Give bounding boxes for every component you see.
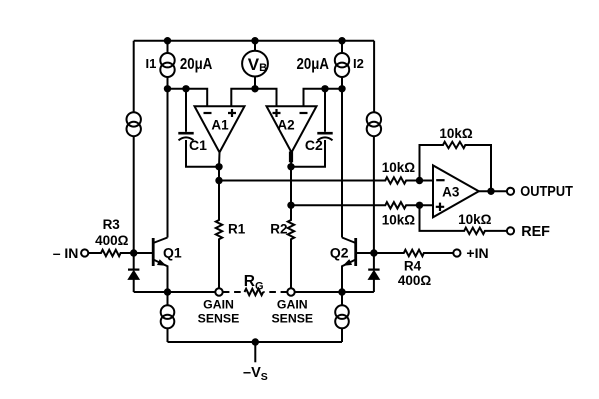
diode D2 (right clamp) (373, 253, 375, 270)
svg-text:REF: REF (521, 224, 550, 240)
svg-text:OUTPUT: OUTPUT (520, 184, 573, 200)
sign A1 plus (228, 109, 236, 117)
wire junction row right (A2 minus to I2) (304, 89, 343, 106)
wire gain-sense row left (134, 291, 216, 293)
svg-text:C1: C1 (189, 137, 207, 153)
node C1 top junction (182, 85, 189, 92)
svg-text:A1: A1 (211, 118, 229, 133)
resistor R1 (216, 181, 222, 289)
node VB bottom junction (251, 85, 258, 92)
wire gain-sense row right (295, 291, 374, 293)
svg-text:R1: R1 (228, 222, 246, 237)
wire I1 column top (167, 41, 169, 54)
wire A2 plus input (255, 89, 277, 106)
op-amp A1 (195, 106, 245, 152)
current source (right mirror) (367, 112, 381, 126)
wire junction row left (I1 to A1 minus) (168, 89, 208, 106)
wire I2 column top (341, 41, 343, 54)
op-amp A2 (267, 106, 317, 152)
current source (left tail) (161, 305, 175, 319)
terminal REF (507, 227, 514, 234)
wire A3 plus row with 10k resistor (291, 202, 433, 208)
sign A3 plus (436, 203, 444, 211)
svg-text:– IN: – IN (53, 245, 79, 261)
wire A3 output (479, 190, 507, 192)
terminal OUTPUT (507, 188, 514, 195)
sign A2 plus (273, 109, 281, 117)
resistor R3 (-IN input) (88, 250, 133, 256)
sign A1 minus (204, 112, 212, 114)
wire right rail lower (373, 136, 375, 253)
wire C2 branch (324, 89, 326, 132)
wire left rail upper (133, 41, 135, 113)
svg-text:10kΩ: 10kΩ (458, 212, 492, 227)
terminal +IN (453, 249, 460, 256)
node A1 output row (215, 177, 222, 184)
wire C1 branch (185, 89, 187, 132)
svg-text:C2: C2 (305, 137, 323, 153)
voltage source VB (242, 51, 268, 77)
op-amp input signs (204, 109, 445, 211)
terminal -IN (81, 249, 88, 256)
wire A1 plus input (231, 89, 255, 106)
svg-text:A3: A3 (442, 185, 460, 200)
svg-text:SENSE: SENSE (271, 312, 313, 326)
bottom rail (168, 341, 343, 343)
current source I2 (335, 53, 349, 67)
resistor R2 (288, 205, 294, 288)
svg-text:SENSE: SENSE (198, 312, 240, 326)
node Q1 base (130, 249, 137, 256)
wire A3 feedback loop with 10k resistor (420, 142, 492, 192)
node dots (130, 37, 495, 346)
transistor Q2 (354, 238, 357, 266)
svg-text:I1: I1 (146, 56, 157, 71)
wire right tail column (341, 292, 343, 305)
capacitor C1 (178, 132, 193, 135)
node -Vs (252, 338, 259, 345)
node A2 output row (287, 202, 294, 209)
diode D1 (left clamp) (133, 253, 135, 270)
node VB/top rail (251, 37, 258, 44)
svg-text:A2: A2 (277, 118, 294, 133)
node A3 plus input (416, 202, 423, 209)
wire REF branch with 10k resistor (420, 205, 507, 234)
wire Q1 collector column (167, 89, 169, 238)
svg-text:R2: R2 (270, 222, 287, 237)
svg-text:GAIN: GAIN (203, 298, 234, 312)
svg-text:20μA: 20μA (297, 56, 330, 73)
node I2 bottom junction (338, 85, 345, 92)
svg-text:VB: VB (248, 55, 267, 74)
node Q2 emitter (338, 288, 345, 295)
node I1 bottom junction (164, 85, 171, 92)
node Q2 base (370, 249, 377, 256)
terminal GAIN SENSE left (215, 288, 222, 295)
resistor R4 (+IN input) (374, 250, 453, 256)
svg-text:+IN: +IN (466, 245, 488, 261)
transistor Q1 (152, 238, 155, 266)
svg-text:10kΩ: 10kΩ (439, 126, 473, 141)
svg-text:400Ω: 400Ω (95, 233, 129, 248)
svg-text:RG: RG (244, 273, 264, 293)
node C2 top junction (321, 85, 328, 92)
svg-text:R4: R4 (404, 259, 422, 274)
node Q1 emitter (164, 288, 171, 295)
wire to bottom rail (167, 328, 169, 342)
sign A3 minus (436, 179, 444, 181)
svg-text:I2: I2 (353, 56, 364, 71)
wire I1 column to junction (167, 77, 169, 89)
node A1 output / C1 (215, 163, 222, 170)
resistor RG (dashed gain set) (223, 291, 245, 293)
svg-text:Q2: Q2 (330, 245, 349, 261)
current source (right tail) (335, 305, 349, 319)
current source I1 (160, 53, 174, 67)
svg-text:R3: R3 (103, 217, 121, 232)
node I1/top rail (164, 37, 171, 44)
op-amp A3 (433, 165, 479, 217)
sign A2 minus (300, 112, 308, 114)
wire right rail upper (373, 41, 375, 113)
node A3 output (487, 188, 494, 195)
svg-text:10kΩ: 10kΩ (382, 160, 416, 175)
node A3 minus input (416, 177, 423, 184)
svg-text:400Ω: 400Ω (398, 273, 432, 288)
capacitor C2 (317, 132, 332, 135)
node I2/top rail (338, 37, 345, 44)
wire A1 output (218, 152, 221, 180)
wire Q2 collector column (341, 77, 343, 238)
svg-text:GAIN: GAIN (277, 298, 308, 312)
wire A3 minus row with 10k resistor (219, 177, 433, 183)
wire left rail lower (133, 136, 135, 253)
node A2 output / C2 (287, 163, 294, 170)
terminal GAIN SENSE right (287, 288, 294, 295)
svg-text:10kΩ: 10kΩ (382, 213, 416, 228)
wire top rail (134, 40, 374, 42)
current source (left mirror) (127, 112, 141, 126)
wire A2 output (290, 152, 293, 205)
svg-text:Q1: Q1 (163, 245, 182, 261)
wire VB stem top (254, 41, 256, 51)
wire -Vs stub (254, 342, 256, 362)
svg-text:–VS: –VS (243, 365, 268, 383)
wire left tail column (167, 292, 169, 305)
svg-text:20μA: 20μA (180, 56, 213, 73)
